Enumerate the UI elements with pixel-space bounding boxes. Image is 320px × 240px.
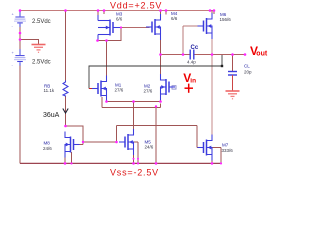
svg-text:156/6: 156/6 bbox=[220, 17, 232, 22]
svg-text:333/6: 333/6 bbox=[222, 148, 234, 153]
svg-text:out: out bbox=[256, 51, 268, 58]
svg-text:Vdd=+2.5V: Vdd=+2.5V bbox=[110, 1, 162, 11]
svg-text:24/6: 24/6 bbox=[43, 146, 52, 151]
svg-text:Cc: Cc bbox=[191, 45, 199, 51]
svg-text:in: in bbox=[190, 78, 196, 85]
svg-text:M7: M7 bbox=[222, 143, 229, 148]
svg-text:11.1k: 11.1k bbox=[44, 88, 55, 93]
svg-text:20p: 20p bbox=[244, 69, 252, 74]
svg-text:2.5Vdc: 2.5Vdc bbox=[32, 19, 51, 25]
svg-text:24/6: 24/6 bbox=[145, 145, 154, 150]
svg-text:4.4p: 4.4p bbox=[187, 59, 196, 64]
svg-text:6/6: 6/6 bbox=[116, 17, 123, 22]
svg-text:6/6: 6/6 bbox=[171, 16, 178, 21]
svg-text:CL: CL bbox=[244, 64, 250, 69]
svg-text:36uA: 36uA bbox=[43, 112, 60, 119]
svg-text:Vss=-2.5V: Vss=-2.5V bbox=[110, 167, 159, 177]
svg-text:27/6: 27/6 bbox=[115, 88, 124, 93]
svg-text:27/6: 27/6 bbox=[144, 89, 153, 94]
svg-text:M8: M8 bbox=[44, 141, 51, 146]
svg-text:2.5Vdc: 2.5Vdc bbox=[32, 60, 51, 66]
